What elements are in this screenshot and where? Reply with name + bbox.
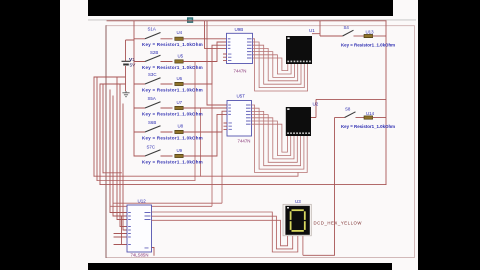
- svg-text:U5: U5: [178, 54, 184, 59]
- hex display U3 DCD_HEX_YELLOW: [283, 199, 362, 236]
- svg-text:U5T: U5T: [237, 93, 246, 98]
- wire bottom long horizontal 1: [94, 173, 298, 177]
- seven-segment display U2: [286, 101, 319, 136]
- left bus wire 5 to U12: [110, 90, 127, 213]
- wire tie to decoder U9B pin D: [205, 21, 228, 49]
- svg-text:U3: U3: [295, 199, 301, 204]
- switch S7C: [134, 145, 173, 156]
- sheet border: [106, 26, 415, 258]
- svg-text:S3C: S3C: [148, 72, 157, 77]
- left bus wire 3: [99, 84, 101, 185]
- svg-text:U6: U6: [177, 76, 183, 81]
- resistor R6: [142, 114, 227, 164]
- wire tie to decoder U5T pin D: [207, 21, 227, 105]
- svg-text:U4: U4: [177, 30, 183, 35]
- resistor R5: [142, 111, 227, 140]
- svg-text:U14: U14: [366, 111, 375, 116]
- left bus wire 4: [102, 84, 104, 173]
- wire S8 down rail: [303, 118, 335, 256]
- switch S5A: [134, 96, 173, 108]
- svg-text:Key = Resistor1_1.0kOhm: Key = Resistor1_1.0kOhm: [142, 111, 203, 116]
- left bus wire 9 to U12: [123, 104, 127, 230]
- switch S3C: [134, 72, 173, 84]
- IC U5T 7447 BCD-to-7seg decoder: [224, 93, 252, 143]
- svg-text:S6B: S6B: [148, 120, 156, 125]
- wire middle drop line 1: [110, 84, 212, 206]
- wire bottom short corner 4: [103, 172, 122, 174]
- svg-text:5V: 5V: [130, 63, 137, 69]
- svg-text:DCD_HEX_YELLOW: DCD_HEX_YELLOW: [314, 221, 363, 226]
- wire display U1 common to S4: [312, 21, 343, 36]
- svg-text:S2B: S2B: [150, 50, 158, 55]
- resistor R4: [142, 100, 227, 116]
- svg-text:Key = Resistor1_1.0kOhm: Key = Resistor1_1.0kOhm: [142, 87, 203, 92]
- switch S8: [335, 106, 365, 117]
- svg-text:7447N: 7447N: [238, 139, 251, 144]
- svg-text:U8: U8: [178, 124, 184, 129]
- comparator U12 74LS85: [127, 199, 152, 258]
- svg-text:S4: S4: [344, 25, 350, 30]
- svg-text:7447N: 7447N: [234, 69, 247, 74]
- svg-text:U7: U7: [177, 100, 183, 105]
- svg-text:U12: U12: [138, 199, 147, 204]
- wire display U2 common loop to S8: [311, 99, 386, 117]
- left bus wire 1: [93, 77, 95, 176]
- wire loops U12 to display U3: [152, 212, 303, 255]
- svg-text:S7C: S7C: [147, 145, 156, 150]
- resistor R3: [142, 45, 227, 92]
- application white window area: [60, 0, 418, 270]
- wire top horizontal net: [107, 20, 386, 22]
- wire riser row4 node to bottom: [200, 108, 202, 176]
- svg-text:74LS85N: 74LS85N: [131, 252, 149, 257]
- svg-text:U9: U9: [177, 148, 183, 153]
- svg-text:S8: S8: [345, 106, 351, 111]
- switch S6B: [134, 120, 173, 132]
- ground: [122, 91, 129, 97]
- wire switch rail: [133, 21, 135, 157]
- left bus wire 8 to U12: [120, 84, 127, 227]
- svg-text:Key = Resistor1_1.0kOhm: Key = Resistor1_1.0kOhm: [142, 135, 203, 140]
- wire U12 ground stub: [152, 248, 155, 256]
- wire bottom horizontal 2: [97, 179, 195, 181]
- svg-text:Key = Resistor1_1.0kOhm: Key = Resistor1_1.0kOhm: [142, 65, 203, 70]
- battery V1: [94, 40, 136, 91]
- resistor R8 U14: [341, 111, 395, 129]
- svg-text:U9B: U9B: [235, 27, 244, 32]
- toolbar teal icon: [187, 17, 193, 23]
- svg-text:S5A: S5A: [148, 96, 156, 101]
- wire loops U9B to display U1: [253, 39, 308, 91]
- resistor R7 U13: [341, 29, 395, 47]
- wire right vertical from top net: [385, 21, 387, 185]
- svg-text:U13: U13: [366, 29, 375, 34]
- svg-text:U1: U1: [309, 28, 315, 33]
- svg-text:S1A: S1A: [148, 27, 156, 32]
- sheet border left dark edge: [105, 26, 107, 258]
- letterbox bottom black bar: [88, 263, 392, 270]
- switch S1A: [134, 27, 173, 39]
- toolbar separator line: [88, 19, 416, 20]
- left bus wire 6 to U12: [113, 96, 127, 216]
- svg-text:Key = Resistor1_1.0kOhm: Key = Resistor1_1.0kOhm: [341, 42, 395, 47]
- svg-text:Key = Resistor1_1.0kOhm: Key = Resistor1_1.0kOhm: [341, 124, 395, 129]
- letterbox top black bar: [88, 0, 393, 16]
- wire middle drop line 2: [113, 132, 222, 203]
- wire riser row2 node to bottom: [194, 62, 196, 181]
- wire U12 pin B stubs: [114, 216, 127, 245]
- wire loops U5T to display U2: [252, 105, 308, 173]
- left bus wire 2: [96, 77, 98, 180]
- switch S4: [343, 25, 364, 36]
- wire bottom horizontal 3: [100, 184, 386, 186]
- resistor R1: [142, 30, 227, 47]
- seven-segment display U1: [286, 28, 315, 64]
- resistor R2: [142, 42, 227, 70]
- svg-text:Key = Resistor1_1.0kOhm: Key = Resistor1_1.0kOhm: [142, 42, 203, 47]
- switch S2B: [134, 50, 173, 61]
- left bus wire 7 to U12: [117, 77, 127, 220]
- svg-text:Key = Resistor1_1.0kOhm: Key = Resistor1_1.0kOhm: [142, 159, 203, 164]
- IC U9B 7447 BCD-to-7seg decoder: [223, 27, 253, 74]
